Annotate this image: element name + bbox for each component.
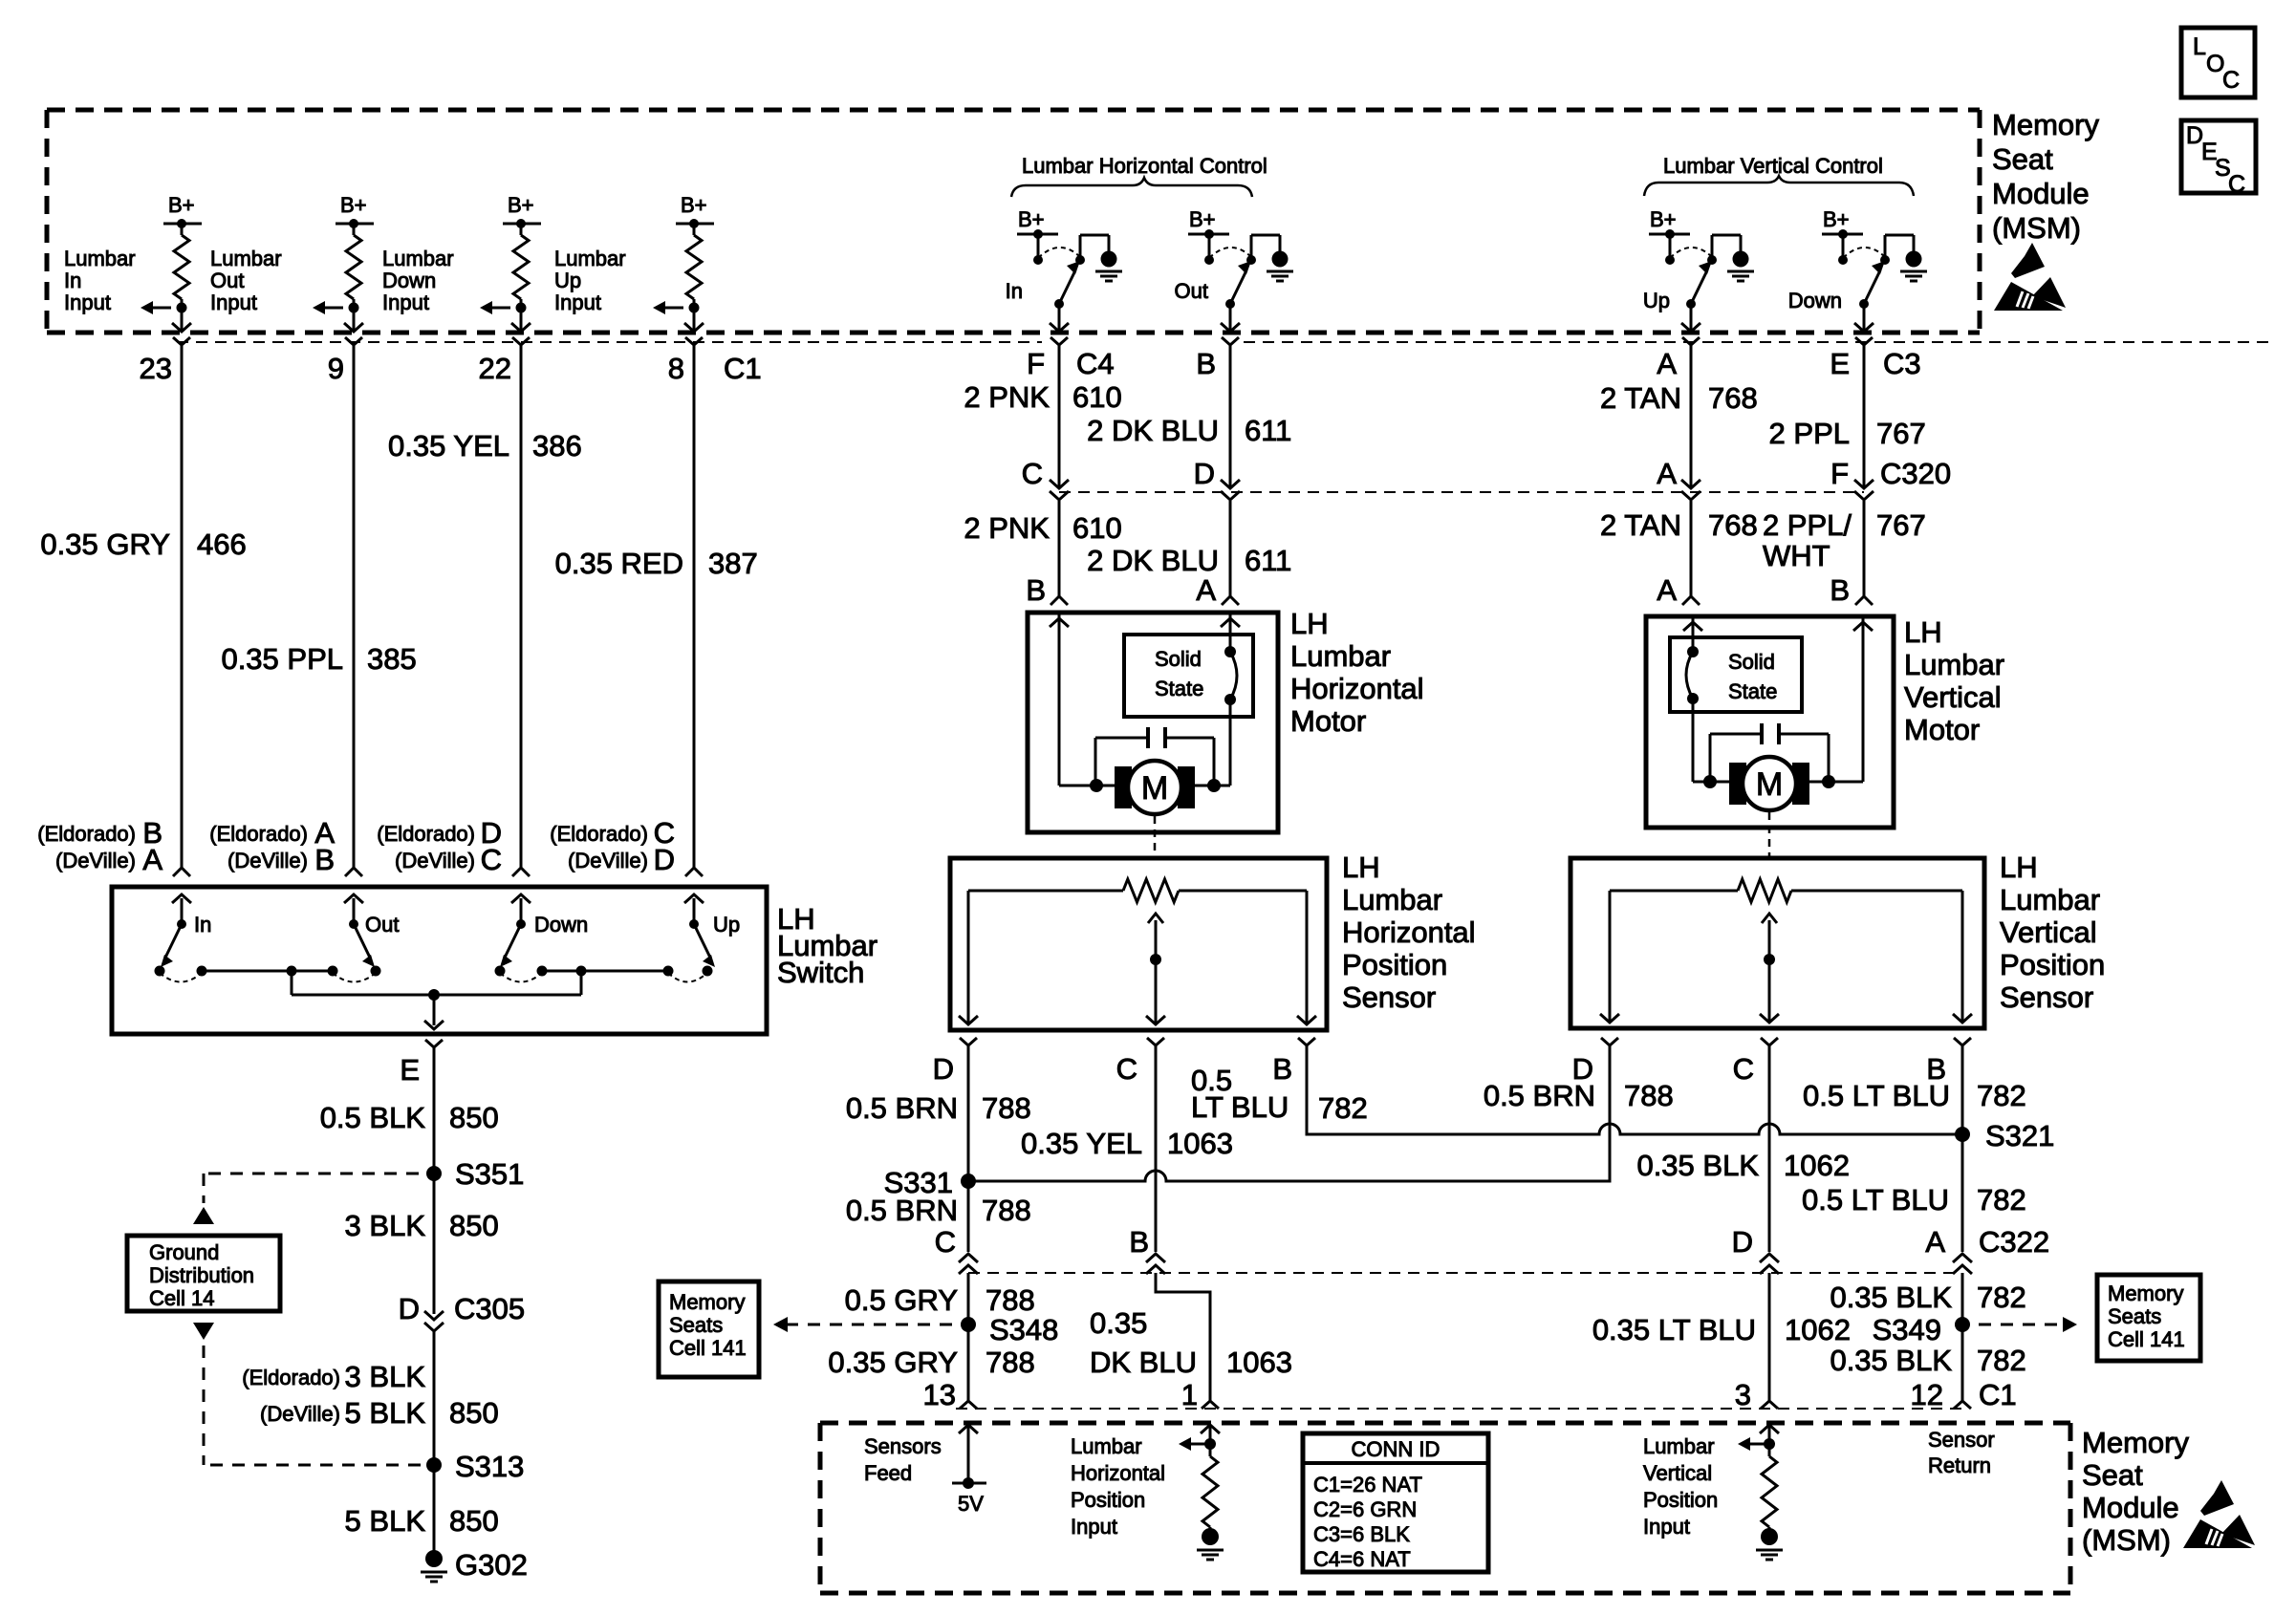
svg-text:LH: LH — [1342, 851, 1380, 884]
svg-text:Lumbar: Lumbar — [1643, 1434, 1715, 1458]
svg-text:2 DK BLU: 2 DK BLU — [1087, 414, 1219, 447]
svg-text:788: 788 — [982, 1194, 1031, 1227]
svg-text:768: 768 — [1708, 381, 1758, 415]
switch Lumbar Horizontal Out (dashed throw arc) — [1209, 248, 1250, 258]
Memory Seats Cell 141 reference box (left) — [659, 1281, 759, 1377]
svg-text:Horizontal: Horizontal — [1071, 1461, 1165, 1485]
svg-text:23: 23 — [140, 352, 172, 385]
dashed reference S351 to Ground Distribution — [193, 1174, 419, 1224]
svg-text:A: A — [1925, 1225, 1945, 1259]
svg-text:Out: Out — [210, 269, 244, 292]
svg-text:D: D — [933, 1052, 954, 1086]
connector C1 pin 13 at bottom MSM — [923, 1378, 977, 1411]
resistor Lumbar In Input pull-up — [174, 224, 189, 308]
svg-text:Down: Down — [534, 913, 588, 937]
svg-text:Vertical: Vertical — [1904, 680, 2002, 714]
svg-text:Lumbar: Lumbar — [1290, 639, 1391, 673]
svg-text:State: State — [1155, 677, 1203, 700]
connector pin 9 at MSM top box — [328, 337, 362, 385]
svg-text:A: A — [1657, 347, 1677, 380]
svg-text:B+: B+ — [1018, 207, 1045, 231]
svg-text:Up: Up — [713, 913, 740, 937]
svg-text:B: B — [314, 843, 335, 876]
wire 768 (2 TAN) vertical feed from C320 to motor — [1600, 501, 1758, 596]
svg-text:(DeVille): (DeVille) — [395, 849, 475, 872]
wire from Lumbar Horizontal Out switch to MSM connector — [1221, 304, 1240, 332]
svg-text:767: 767 — [1876, 417, 1926, 450]
dashed reference arrow S348 to Memory Seats Cell 141 — [773, 1317, 952, 1332]
svg-text:B+: B+ — [1823, 207, 1850, 231]
svg-text:C: C — [1022, 457, 1043, 490]
svg-text:385: 385 — [367, 642, 417, 676]
LH Lumbar Vertical Motor enclosure — [1646, 615, 2004, 828]
motor M armature (vertical) — [1693, 757, 1863, 810]
connector pin B at MSM top box — [1196, 337, 1239, 380]
svg-text:D: D — [654, 843, 675, 876]
svg-text:CONN ID: CONN ID — [1352, 1437, 1440, 1461]
svg-text:Motor: Motor — [1904, 713, 1980, 746]
svg-text:(Eldorado): (Eldorado) — [377, 822, 475, 846]
svg-text:Input: Input — [1071, 1515, 1117, 1539]
B+ supply for Lumbar In Input pull-up — [163, 193, 202, 228]
svg-text:C1: C1 — [724, 352, 762, 385]
svg-text:C305: C305 — [454, 1292, 525, 1325]
label Lumbar Vertical Control with brace — [1644, 154, 1914, 196]
svg-text:5 BLK: 5 BLK — [345, 1504, 426, 1538]
wire Lumbar In Input down to MSM connector — [172, 308, 191, 332]
ground symbol at Lumbar Horizontal Position Input — [1197, 1527, 1224, 1560]
svg-text:3 BLK: 3 BLK — [345, 1360, 426, 1393]
connector C322 identifier — [1979, 1225, 2049, 1259]
svg-text:Sensor: Sensor — [1928, 1428, 1995, 1452]
svg-text:611: 611 — [1245, 414, 1291, 447]
connector C322 pin A — [1925, 1225, 1972, 1274]
svg-text:5V: 5V — [958, 1492, 984, 1516]
svg-text:S351: S351 — [455, 1157, 524, 1191]
connector C1 pin 1 at bottom MSM — [1181, 1378, 1219, 1411]
ground symbol at Lumbar Horizontal In switch — [1095, 251, 1122, 282]
svg-text:3 BLK: 3 BLK — [345, 1209, 426, 1242]
svg-text:C3: C3 — [1883, 347, 1921, 380]
svg-text:S348: S348 — [989, 1313, 1058, 1346]
connector C322 dashed line — [968, 1272, 1962, 1274]
svg-text:Position: Position — [1071, 1488, 1145, 1512]
switch Lumbar Horizontal Out lever — [1175, 261, 1251, 309]
svg-text:Lumbar: Lumbar — [210, 247, 282, 270]
connector C1 dashed line (bottom) — [956, 1408, 1962, 1410]
wire Lumbar Down Input down to MSM connector — [511, 308, 531, 332]
wire 386 (0.35 YEL) from MSM to LH Lumbar Switch — [388, 345, 582, 868]
wire from Lumbar Vertical Up switch to MSM connector — [1681, 304, 1700, 332]
connector pin D below position sensor at x=1013 — [933, 1038, 977, 1086]
ground contact for Lumbar Vertical Down switch — [1880, 235, 1914, 265]
svg-text:Memory: Memory — [2108, 1281, 2183, 1305]
connector pin at LH Lumbar Switch for wire 385 (0.35 PPL) — [345, 868, 362, 876]
svg-text:Vertical: Vertical — [1643, 1461, 1712, 1485]
wire pin A inside horizontal motor — [1221, 614, 1240, 786]
svg-text:788: 788 — [982, 1091, 1031, 1125]
svg-text:A: A — [142, 843, 162, 876]
connector C320 identifier — [1880, 457, 1951, 490]
connector C322 pin B — [1129, 1225, 1165, 1274]
svg-text:S321: S321 — [1985, 1119, 2054, 1152]
svg-text:B: B — [1196, 347, 1216, 380]
wire 788 (0.5 BRN) S331 to C322 — [967, 1181, 970, 1252]
svg-text:C322: C322 — [1979, 1225, 2049, 1259]
svg-text:E: E — [400, 1053, 420, 1087]
svg-text:Distribution: Distribution — [149, 1263, 254, 1287]
svg-text:9: 9 — [328, 352, 344, 385]
svg-text:Module: Module — [2082, 1491, 2179, 1524]
svg-text:DK BLU: DK BLU — [1090, 1346, 1197, 1379]
label (Eldorado) pin D / (DeVille) pin C — [377, 816, 502, 876]
svg-text:G302: G302 — [455, 1548, 528, 1582]
svg-text:Lumbar: Lumbar — [64, 247, 136, 270]
wire 788 (0.5 BRN) sensor return bus S331 to vertical sensor D — [846, 1045, 1674, 1227]
connector pin at LH Lumbar Switch for wire 387 (0.35 RED) — [685, 868, 703, 876]
svg-text:0.35 GRY: 0.35 GRY — [40, 528, 170, 561]
svg-text:(DeVille): (DeVille) — [227, 849, 308, 872]
svg-text:2 PPL: 2 PPL — [1769, 417, 1850, 450]
connector C1 identifier (bottom) — [1979, 1378, 2017, 1411]
switch pole Down in LH Lumbar Switch — [500, 894, 588, 967]
svg-text:2 TAN: 2 TAN — [1600, 508, 1681, 542]
wire 850 (5 BLK) S313 to G302 — [345, 1465, 499, 1552]
connector pin B at motor on wire 767 (2 PPL) vertical return — [1830, 573, 1873, 607]
label Lumbar Up Input — [554, 247, 626, 314]
svg-text:0.5 LT BLU: 0.5 LT BLU — [1802, 1183, 1949, 1217]
svg-text:F: F — [1027, 347, 1045, 380]
connector C320 pin D crossing on wire 611 (2 DK BLU) horizontal return — [1194, 457, 1240, 500]
wire 1063 (0.35 YEL) sensor C to C322 — [1021, 1045, 1233, 1252]
svg-text:Memory: Memory — [669, 1290, 745, 1314]
input resistor for Lumbar Horizontal Position Input — [1179, 1425, 1220, 1527]
potentiometer wiper (vertical sensor) — [1762, 914, 1777, 965]
solid state switch contacts (horizontal motor) — [1224, 646, 1237, 705]
svg-text:Out: Out — [1175, 279, 1208, 303]
svg-text:0.35 YEL: 0.35 YEL — [388, 429, 509, 463]
resistor Lumbar Out Input pull-up — [346, 224, 361, 308]
svg-text:C4: C4 — [1076, 347, 1115, 380]
ground symbol at Lumbar Horizontal Out switch — [1267, 251, 1293, 282]
label Memory Seat Module (MSM) top right — [1992, 108, 2099, 245]
wire 385 (0.35 PPL) from MSM to LH Lumbar Switch — [221, 345, 416, 868]
svg-text:0.35 BLK: 0.35 BLK — [1830, 1281, 1952, 1314]
svg-text:0.5 LT BLU: 0.5 LT BLU — [1803, 1079, 1950, 1112]
connector pin E below LH Lumbar Switch — [400, 1040, 443, 1087]
label Lumbar Vertical Position Input — [1643, 1434, 1718, 1539]
wire from Lumbar Vertical Down switch to MSM connector — [1854, 304, 1874, 332]
svg-text:Horizontal: Horizontal — [1290, 672, 1424, 705]
svg-text:Input: Input — [554, 291, 601, 314]
mechanical link motor to sensor (horizontal) — [1154, 816, 1157, 856]
svg-text:788: 788 — [1624, 1079, 1674, 1112]
wire 767 (2 PPL) vertical return from C320 to motor — [1763, 501, 1926, 596]
svg-text:(MSM): (MSM) — [1992, 211, 2081, 245]
svg-text:C3=6 BLK: C3=6 BLK — [1313, 1522, 1410, 1546]
svg-text:Input: Input — [1643, 1515, 1690, 1539]
wire 782 (0.5 LT BLU) sensor B to S321 — [1191, 1045, 1962, 1134]
svg-text:(Eldorado): (Eldorado) — [550, 822, 648, 846]
Memory Seat Module (MSM) dashed enclosure (bottom) — [820, 1423, 2070, 1593]
connector C4/C3 dashed line (right) — [1244, 341, 2272, 343]
connector pin at LH Lumbar Switch for wire 466 (0.35 GRY) — [173, 868, 190, 876]
label Sensor Return — [1928, 1428, 1995, 1477]
potentiometer resistor (horizontal sensor) — [968, 879, 1307, 902]
connector pin 8 at MSM top box — [668, 337, 703, 385]
svg-text:Sensor: Sensor — [2000, 980, 2093, 1014]
svg-text:(Eldorado): (Eldorado) — [242, 1366, 340, 1389]
svg-text:C4=6 NAT: C4=6 NAT — [1313, 1547, 1411, 1571]
switch pole Up in LH Lumbar Switch — [684, 894, 740, 967]
svg-text:2 PNK: 2 PNK — [964, 511, 1050, 545]
svg-text:788: 788 — [986, 1283, 1035, 1317]
connector pin D below position sensor at x=1684 — [1572, 1038, 1618, 1086]
svg-text:782: 782 — [1977, 1079, 2026, 1112]
wire 788 (0.5 BRN) sensor D to S331 — [846, 1045, 1031, 1177]
wire pin B inside horizontal motor — [1050, 614, 1069, 786]
svg-text:768: 768 — [1708, 508, 1758, 542]
svg-text:B: B — [1129, 1225, 1149, 1259]
dashed reference arrow S349 to Memory Seats Cell 141 — [1979, 1317, 2077, 1332]
wire 768 (2 TAN) vertical feed from MSM switch to C320 — [1600, 345, 1758, 486]
svg-text:Position: Position — [1342, 948, 1447, 981]
CONN ID table — [1303, 1433, 1488, 1572]
switch Lumbar Vertical Up lever — [1643, 261, 1712, 312]
wire 610 (2 PNK) horizontal feed from C320 to motor — [964, 501, 1121, 596]
B+ supply for Lumbar Vertical Down switch — [1822, 207, 1863, 265]
svg-text:Down: Down — [382, 269, 436, 292]
svg-text:Sensor: Sensor — [1342, 980, 1436, 1014]
sensor wiper leg C (vertical sensor) — [1760, 959, 1779, 1023]
svg-text:Module: Module — [1992, 177, 2090, 210]
label Lumbar Down Input — [382, 247, 454, 314]
svg-text:782: 782 — [1977, 1344, 2026, 1377]
switch contacts and throw arcs in LH Lumbar Switch — [155, 966, 713, 982]
svg-text:C1: C1 — [1979, 1378, 2017, 1411]
svg-text:Seat: Seat — [2082, 1458, 2143, 1492]
ESD sensitivity symbol (bottom) — [2183, 1480, 2255, 1548]
wire 611 (2 DK BLU) horizontal return from MSM switch to C320 — [1087, 345, 1291, 486]
svg-text:850: 850 — [449, 1396, 499, 1430]
svg-text:S349: S349 — [1873, 1313, 1941, 1346]
svg-text:12: 12 — [1911, 1378, 1943, 1411]
svg-text:Position: Position — [1643, 1488, 1718, 1512]
svg-text:2 DK BLU: 2 DK BLU — [1087, 544, 1219, 577]
svg-text:1062: 1062 — [1785, 1313, 1851, 1346]
svg-text:C2=6 GRN: C2=6 GRN — [1313, 1497, 1417, 1521]
svg-text:1062: 1062 — [1784, 1149, 1850, 1182]
svg-text:610: 610 — [1072, 511, 1122, 545]
resistor Lumbar Down Input pull-up — [513, 224, 529, 308]
svg-text:Seats: Seats — [2108, 1304, 2161, 1328]
ground G302 — [421, 1548, 528, 1582]
svg-text:C: C — [1116, 1052, 1137, 1086]
wire 850 (0.5 BLK) switch E to S351 — [320, 1047, 499, 1174]
svg-text:Ground: Ground — [149, 1240, 219, 1264]
solid state switch contacts (vertical motor) — [1686, 646, 1699, 704]
svg-text:C: C — [2222, 67, 2240, 94]
ground symbol at Lumbar Vertical Position Input — [1756, 1527, 1783, 1560]
connector pin A at motor on wire 768 (2 TAN) vertical feed — [1657, 573, 1700, 607]
wire 782 (0.5 LT BLU) S321 to C322 — [1802, 1079, 2026, 1252]
wire 610 (2 PNK) horizontal feed from MSM switch to C320 — [964, 345, 1121, 486]
connector C1 identifier (top left) — [724, 352, 762, 385]
ground contact for Lumbar Vertical Up switch — [1707, 235, 1741, 265]
potentiometer wiper (horizontal sensor) — [1148, 914, 1163, 965]
suppression capacitor (horizontal motor) — [1095, 727, 1214, 786]
wire 466 (0.35 GRY) from MSM to LH Lumbar Switch — [40, 345, 246, 868]
B+ supply for Lumbar Vertical Up switch — [1649, 207, 1690, 265]
potentiometer resistor (vertical sensor) — [1610, 879, 1962, 902]
svg-text:Up: Up — [554, 269, 581, 292]
wire 850 (3 BLK) S351 to C305 — [345, 1174, 499, 1314]
wire Lumbar Up Input down to MSM connector — [684, 308, 704, 332]
LH Lumbar Horizontal Motor enclosure — [1028, 607, 1424, 832]
Ground Distribution Cell 14 reference box — [127, 1236, 280, 1311]
connector pin F at MSM top box — [1027, 337, 1068, 380]
svg-text:22: 22 — [479, 352, 511, 385]
label (Eldorado) pin C / (DeVille) pin D — [550, 816, 675, 876]
svg-text:S313: S313 — [455, 1450, 524, 1483]
connector pin A at MSM top box — [1657, 337, 1700, 380]
dashed reference Ground Distribution to S313 — [193, 1323, 421, 1465]
svg-text:Horizontal: Horizontal — [1342, 915, 1476, 949]
svg-text:D: D — [399, 1292, 420, 1325]
svg-text:3: 3 — [1735, 1378, 1751, 1411]
svg-text:L: L — [2193, 33, 2206, 60]
svg-text:2 PNK: 2 PNK — [964, 380, 1050, 414]
LH Lumbar Horizontal Position Sensor enclosure — [950, 851, 1476, 1030]
svg-text:Input: Input — [64, 291, 111, 314]
Memory Seats Cell 141 reference box (right) — [2097, 1275, 2200, 1361]
svg-text:0.5 BLK: 0.5 BLK — [320, 1101, 426, 1134]
LH Lumbar Switch enclosure — [112, 887, 877, 1034]
connector pin C below position sensor at x=1209 — [1116, 1038, 1164, 1086]
svg-text:1: 1 — [1181, 1378, 1198, 1411]
svg-text:C: C — [481, 843, 502, 876]
ESD sensitivity symbol (top) — [1994, 243, 2066, 311]
svg-text:Vertical: Vertical — [2000, 915, 2097, 949]
input resistor for Lumbar Vertical Position Input — [1738, 1425, 1779, 1527]
svg-text:(Eldorado): (Eldorado) — [37, 822, 136, 846]
wire switch common output to pin E — [424, 995, 444, 1029]
svg-text:F: F — [1830, 457, 1849, 490]
svg-text:0.35 GRY: 0.35 GRY — [828, 1346, 958, 1379]
svg-text:In: In — [64, 269, 81, 292]
svg-text:C: C — [935, 1225, 956, 1259]
svg-text:M: M — [1141, 770, 1168, 807]
svg-text:788: 788 — [986, 1346, 1035, 1379]
svg-text:0.5 BRN: 0.5 BRN — [846, 1091, 958, 1125]
svg-text:A: A — [1657, 457, 1677, 490]
sensor wiper leg C (horizontal sensor) — [1146, 959, 1165, 1024]
mechanical link motor to sensor (vertical) — [1768, 812, 1771, 856]
svg-text:1063: 1063 — [1167, 1127, 1233, 1160]
svg-text:WHT: WHT — [1763, 539, 1830, 572]
svg-text:A: A — [1657, 573, 1677, 607]
svg-text:0.35 YEL: 0.35 YEL — [1021, 1127, 1142, 1160]
B+ supply for Lumbar Horizontal In switch — [1017, 207, 1058, 265]
resistor Lumbar Up Input pull-up — [686, 224, 702, 308]
ground symbol at Lumbar Vertical Up switch — [1727, 251, 1754, 282]
splice S313 — [426, 1450, 524, 1483]
ground symbol at Lumbar Vertical Down switch — [1900, 251, 1927, 282]
sensor leg B (vertical sensor) — [1953, 891, 1972, 1023]
solid state control box (vertical motor) — [1670, 637, 1802, 712]
label (Eldorado) pin A / (DeVille) pin B — [209, 816, 335, 876]
connector C320 pin A crossing on wire 768 (2 TAN) vertical feed — [1657, 457, 1700, 500]
switch Lumbar Vertical Down lever — [1788, 261, 1885, 312]
svg-text:Memory: Memory — [1992, 108, 2099, 141]
connector C322 pin D — [1732, 1225, 1779, 1274]
wire 1063 (0.35 DK BLU) C322 to MSM pin 1 — [1090, 1273, 1292, 1401]
wire 611 (2 DK BLU) horizontal return from C320 to motor — [1087, 501, 1291, 596]
LH Lumbar Vertical Position Sensor enclosure — [1570, 851, 2105, 1028]
svg-text:A: A — [1196, 573, 1216, 607]
wire 767 (2 PPL) vertical return from MSM switch to C320 — [1769, 345, 1926, 486]
connector pin A at motor on wire 611 (2 DK BLU) horizontal return — [1196, 573, 1239, 607]
svg-text:In: In — [1006, 279, 1023, 303]
svg-text:782: 782 — [1318, 1091, 1368, 1125]
svg-text:0.35 BLK: 0.35 BLK — [1830, 1344, 1952, 1377]
svg-text:B: B — [1272, 1052, 1292, 1086]
svg-text:782: 782 — [1977, 1281, 2026, 1314]
svg-text:Lumbar: Lumbar — [1071, 1434, 1142, 1458]
svg-text:(MSM): (MSM) — [2082, 1523, 2171, 1557]
connector C3 identifier — [1883, 347, 1921, 380]
connector pin 22 at MSM top box — [479, 337, 530, 385]
svg-text:Solid: Solid — [1728, 650, 1775, 674]
svg-text:B+: B+ — [168, 193, 195, 217]
connector pin B at motor on wire 610 (2 PNK) horizontal feed — [1026, 573, 1068, 607]
svg-text:C320: C320 — [1880, 457, 1951, 490]
svg-text:0.35 BLK: 0.35 BLK — [1636, 1149, 1759, 1182]
svg-text:D: D — [1194, 457, 1215, 490]
label Memory Seat Module (MSM) bottom right — [2082, 1426, 2189, 1557]
svg-text:611: 611 — [1245, 544, 1291, 577]
svg-text:Memory: Memory — [2082, 1426, 2189, 1459]
svg-text:850: 850 — [449, 1504, 499, 1538]
svg-text:B: B — [1026, 573, 1046, 607]
svg-text:E: E — [1830, 347, 1850, 380]
svg-text:(DeVille): (DeVille) — [568, 849, 648, 872]
svg-text:Down: Down — [1788, 289, 1842, 312]
wire 782 (0.5 LT BLU) vertical sensor B to S321 — [1961, 1045, 1964, 1134]
switch Lumbar Horizontal In (dashed throw arc) — [1038, 248, 1079, 258]
svg-text:466: 466 — [197, 528, 247, 561]
node Lumbar Up Input output junction with arrow — [653, 301, 700, 314]
splice S351 — [426, 1157, 524, 1191]
svg-text:Lumbar Horizontal Control: Lumbar Horizontal Control — [1022, 154, 1267, 178]
svg-text:Seat: Seat — [1992, 142, 2053, 176]
label Lumbar Horizontal Position Input — [1071, 1434, 1165, 1539]
svg-text:State: State — [1728, 679, 1777, 703]
B+ supply for Lumbar Horizontal Out switch — [1188, 207, 1229, 265]
label Lumbar In Input — [64, 247, 136, 314]
svg-text:LH: LH — [2000, 851, 2038, 884]
splice S321 — [1955, 1119, 2054, 1152]
splice S349 — [1873, 1313, 1970, 1346]
connector C320 dashed line — [1059, 491, 1864, 493]
connector pin B below position sensor at x=2053 — [1926, 1038, 1971, 1086]
wire pin A inside vertical motor — [1683, 618, 1702, 782]
svg-text:850: 850 — [449, 1209, 499, 1242]
svg-text:C: C — [1733, 1052, 1754, 1086]
svg-text:LH: LH — [1290, 607, 1329, 640]
connector C1 pin 3 at bottom MSM — [1735, 1378, 1778, 1411]
label Lumbar Horizontal Control with brace — [1011, 154, 1267, 197]
